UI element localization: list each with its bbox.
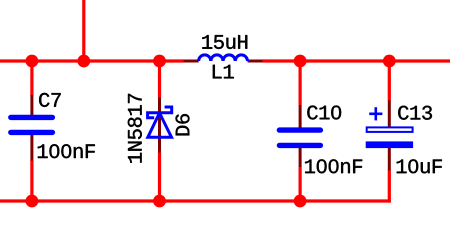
label C13 reference: [398, 106, 432, 120]
wire top rail left segment: [0, 59, 184, 62]
capacitor C10: [279, 105, 320, 167]
junction bottom rail / C7: [26, 195, 39, 208]
wire C7 branch: [30, 61, 33, 201]
capacitor C13 (polarized): [366, 101, 413, 171]
label L1 value 15uH: [202, 35, 247, 49]
wire top rail right segment: [263, 59, 450, 62]
capacitor C7: [11, 95, 53, 161]
wire D6 branch: [158, 61, 161, 201]
junction bottom rail / C10: [294, 195, 307, 208]
diode D6 (1N5817 schottky): [148, 98, 172, 153]
label C10 reference: [307, 106, 341, 120]
label C7 reference: [39, 93, 61, 107]
junction top rail / C13: [383, 55, 396, 68]
label D6 value 1N5817: [128, 94, 142, 163]
wire bottom rail: [0, 199, 391, 202]
label L1 reference: [213, 65, 234, 79]
junction top rail / input stub: [77, 55, 90, 68]
label C10 value 100nF: [305, 159, 362, 173]
plus sign C13 polarity: [369, 107, 382, 120]
wire input stub: [82, 0, 85, 61]
junction top rail / D6: [153, 55, 166, 68]
label D6 reference: [176, 114, 190, 135]
junction bottom rail / D6: [153, 195, 166, 208]
label C13 value 10uF: [397, 159, 442, 173]
wire C10 branch: [299, 61, 302, 201]
wire C13 branch: [388, 61, 391, 203]
junction top rail / C10: [294, 55, 307, 68]
junction top rail / C7: [26, 55, 39, 68]
label C7 value 100nF: [38, 144, 95, 158]
inductor L1: [184, 55, 263, 61]
